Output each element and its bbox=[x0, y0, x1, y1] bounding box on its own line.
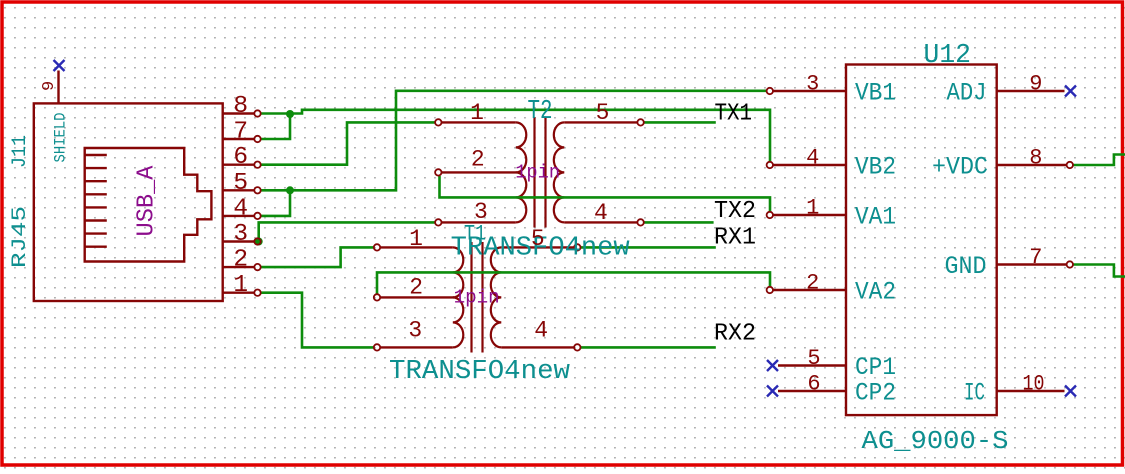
svg-text:9: 9 bbox=[1029, 72, 1042, 97]
svg-text:9: 9 bbox=[40, 81, 59, 91]
svg-text:T2: T2 bbox=[528, 97, 553, 127]
svg-text:SHIELD: SHIELD bbox=[52, 113, 70, 163]
svg-text:TRANSFO4new: TRANSFO4new bbox=[389, 357, 570, 387]
svg-text:10: 10 bbox=[1023, 372, 1045, 397]
svg-text:3: 3 bbox=[233, 221, 248, 248]
svg-text:5: 5 bbox=[807, 346, 820, 371]
svg-text:8: 8 bbox=[1029, 146, 1042, 171]
svg-text:IC: IC bbox=[964, 379, 985, 408]
svg-text:1: 1 bbox=[409, 226, 423, 252]
svg-text:RX1: RX1 bbox=[714, 225, 756, 252]
svg-text:J11: J11 bbox=[9, 135, 32, 168]
svg-text:3: 3 bbox=[408, 317, 422, 343]
svg-text:5: 5 bbox=[233, 170, 248, 197]
svg-text:8: 8 bbox=[233, 93, 248, 120]
svg-text:VA2: VA2 bbox=[855, 278, 896, 307]
svg-text:2: 2 bbox=[233, 247, 248, 274]
svg-text:6: 6 bbox=[233, 144, 248, 171]
svg-text:2: 2 bbox=[806, 271, 819, 296]
svg-text:U12: U12 bbox=[924, 41, 972, 71]
svg-text:TX2: TX2 bbox=[714, 198, 756, 225]
svg-text:7: 7 bbox=[233, 119, 248, 146]
svg-text:1pin: 1pin bbox=[454, 287, 500, 309]
svg-text:VB2: VB2 bbox=[855, 153, 896, 182]
svg-text:6: 6 bbox=[807, 372, 820, 397]
svg-text:5: 5 bbox=[531, 226, 545, 252]
svg-text:4: 4 bbox=[534, 317, 548, 343]
svg-text:1: 1 bbox=[470, 100, 484, 126]
svg-text:2: 2 bbox=[471, 146, 485, 172]
svg-text:TX1: TX1 bbox=[715, 101, 753, 128]
svg-text:7: 7 bbox=[1029, 245, 1042, 270]
svg-text:3: 3 bbox=[474, 199, 488, 225]
svg-text:USB_A: USB_A bbox=[134, 165, 161, 237]
svg-text:ADJ: ADJ bbox=[947, 79, 987, 108]
svg-text:CP2: CP2 bbox=[855, 379, 896, 408]
svg-text:1: 1 bbox=[806, 196, 819, 221]
svg-text:5: 5 bbox=[596, 100, 610, 126]
svg-text:4: 4 bbox=[806, 146, 819, 171]
svg-text:2: 2 bbox=[409, 275, 423, 301]
svg-text:4: 4 bbox=[594, 200, 608, 226]
svg-text:VB1: VB1 bbox=[855, 79, 896, 108]
svg-text:RJ45: RJ45 bbox=[9, 206, 32, 268]
svg-text:4: 4 bbox=[233, 195, 248, 222]
svg-text:3: 3 bbox=[806, 72, 819, 97]
svg-text:GND: GND bbox=[945, 252, 987, 281]
svg-text:VA1: VA1 bbox=[855, 203, 896, 232]
svg-text:+VDC: +VDC bbox=[932, 153, 988, 182]
svg-text:AG_9000-S: AG_9000-S bbox=[862, 426, 1009, 456]
svg-text:RX2: RX2 bbox=[714, 321, 756, 348]
svg-text:1: 1 bbox=[233, 272, 248, 299]
svg-text:1pin: 1pin bbox=[515, 161, 560, 183]
